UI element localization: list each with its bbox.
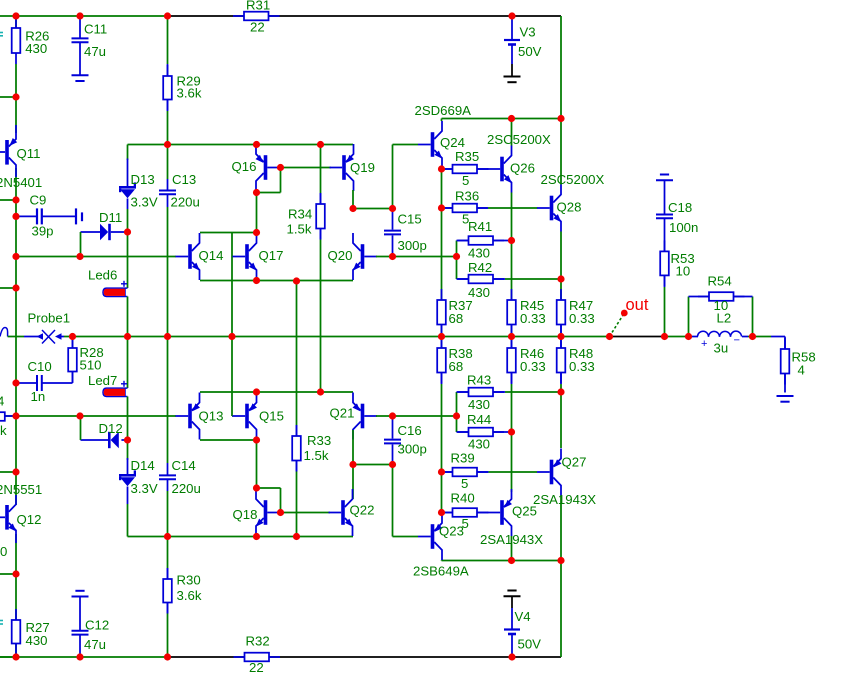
wire top rail left (green) [0,15,168,17]
svg-text:430: 430 [26,633,48,648]
junction at (167.5,536.5) [164,533,171,540]
ground below C11 [72,74,89,76]
capacitor C16 300p [392,416,394,439]
transistor Q26 2SC5200X NPN [488,168,490,170]
capacitor C15 300p [392,145,394,209]
svg-text:22: 22 [249,660,264,675]
wire y464 C16 bottom row [353,464,393,466]
svg-text:Q17: Q17 [259,248,284,263]
svg-text:Q11: Q11 [17,146,41,161]
svg-text:R39: R39 [451,451,475,466]
junction at (127.5,232) [124,228,131,235]
svg-text:300p: 300p [398,238,427,253]
partial resistor at left edge y416 [5,415,16,417]
svg-text:D13: D13 [131,172,155,187]
svg-text:Probe1: Probe1 [28,311,71,326]
wire Q23 collector down to row 560 [441,559,443,562]
capacitor C11 [79,16,81,38]
svg-text:47u: 47u [84,44,106,59]
svg-text:C9: C9 [30,193,47,208]
junction at (80,657) [76,653,83,660]
svg-text:2N5401: 2N5401 [0,175,42,190]
svg-text:3.6k: 3.6k [177,86,202,101]
resistor R43 430 [456,392,458,416]
junction at (512,16) [508,12,515,19]
svg-text:k: k [0,423,7,438]
junction at (256.5,536.5) [253,533,260,540]
resistor R39 5 [442,471,453,473]
svg-text:430: 430 [468,246,490,261]
junction at (80,16) [76,12,83,19]
junction at (353,208.5) [349,205,356,212]
svg-text:50V: 50V [518,637,542,652]
svg-text:D11: D11 [99,210,122,225]
junction at (256.5,440) [253,436,260,443]
svg-text:4: 4 [0,394,4,409]
partial label left edge bottom [0,620,3,622]
wire x561 Q27 emitter column [560,392,562,448]
transistor Q16 PNP mirrored diode-connected [264,155,268,180]
svg-text:R34: R34 [288,207,312,222]
svg-text:68: 68 [449,311,464,326]
junction at (80,256.5) [76,253,83,260]
junction at (16,657) [12,653,19,660]
svg-text:C10: C10 [28,359,52,374]
svg-text:R31: R31 [246,0,270,13]
junction at (16,97) [12,93,19,100]
wire Q26 collector to top row [511,119,513,146]
resistor R58 4 [784,348,786,350]
junction at (320.5,144.5) [317,141,324,148]
probe Probe1 [0,328,8,337]
resistor R54 10 [688,297,690,337]
svg-text:R44: R44 [467,412,491,427]
resistor R41 430 [456,241,458,257]
wire Q14 collector to Q17 collector [200,232,257,234]
svg-text:2N5551: 2N5551 [0,482,42,497]
transistor Q20 NPN mirrored [361,244,365,269]
svg-text:Q20: Q20 [328,248,353,263]
svg-text:1.5k: 1.5k [287,222,312,237]
svg-text:Q26: Q26 [510,161,535,176]
wire bottom rail black through R32 to V4 [168,656,562,658]
resistor R29 [167,16,169,64]
junction at (441.5,336.5) [438,333,445,340]
resistor R38 68 [441,337,443,349]
junction at (456.5,256.5) [453,253,460,260]
transistor Q19 PNP [281,167,332,169]
wire Q25 collector down [511,536,513,561]
svg-text:2SD669A: 2SD669A [415,103,472,118]
svg-text:C16: C16 [398,423,422,438]
capacitor C14 220u [167,337,169,464]
diode D11 [81,231,101,233]
svg-text:3.3V: 3.3V [131,195,158,210]
wire Q13 collector row y440 [200,439,257,441]
resistor R27 [15,609,17,620]
wire Q28 emitter down x561 [560,232,562,301]
svg-text:Q18: Q18 [233,507,258,522]
junction at (167.5,657) [164,653,171,660]
svg-text:Q28: Q28 [557,200,582,215]
wire Q16 collector to Q17 collector x256 [256,193,258,233]
wire y144 bias row [127,145,129,161]
wire x511 Q25 emitter column [511,432,513,492]
junction at (127.5,336.5) [124,333,131,340]
wire Q28 collector to top row [560,119,562,185]
svg-text:C15: C15 [398,212,422,227]
junction at (280.5,512.5) [277,509,284,516]
wire Q18 base-collector tie [257,487,281,489]
svg-text:V4: V4 [515,609,531,624]
svg-text:Q13: Q13 [199,409,224,424]
wire cascode vertical x232 [231,233,233,417]
wire Q18 base row to Q22 [281,512,331,514]
junction at (392.5,256.5) [389,253,396,260]
junction at (16,288) [12,284,19,291]
resistor R46 0.33 [511,337,513,349]
junction at (167.5,336.5) [164,333,171,340]
svg-text:1n: 1n [31,389,46,404]
junction at (256.5,488) [253,484,260,491]
wire Q19 collector to C15 top [352,190,354,209]
svg-text:0.33: 0.33 [520,359,546,374]
transistor Q11 PNP [0,151,5,153]
resistor R53 10 [664,240,666,251]
resistor R42 430 [456,257,458,280]
svg-text:510: 510 [80,358,102,373]
svg-text:0.33: 0.33 [520,311,546,326]
wire right power vertical to Q28 collector row [560,16,562,119]
voltage source V4 50V [507,590,516,592]
svg-text:3u: 3u [714,341,729,356]
junction at (16,200) [12,196,19,203]
resistor R47 0.33 [560,289,562,300]
svg-text:Q23: Q23 [439,524,464,539]
wire Q27 collector down [560,496,562,561]
junction at (664.5,336.5) [661,333,668,340]
diode D12 [81,439,109,441]
resistor R48 0.33 [560,337,562,349]
junction at (16,574) [12,570,19,577]
voltage source V3 50V [511,16,513,40]
junction at (456.5,416) [453,412,460,419]
wire right lower vertical [560,561,562,658]
svg-text:3.6k: 3.6k [177,588,202,603]
resistor R30 [167,537,169,569]
junction at (256.5,192.5) [253,189,260,196]
led Led7 [127,337,129,389]
zener D13 3.3V [127,159,129,187]
junction at (511.5,240.5) [508,237,515,244]
junction at (511.5,560.5) [508,557,515,564]
svg-text:C14: C14 [172,458,196,473]
svg-text:2SC5200X: 2SC5200X [487,132,551,147]
junction at (280.5,167.5) [277,164,284,171]
svg-text:R41: R41 [468,219,492,234]
svg-text:430: 430 [25,41,47,56]
junction at (688.5,336.5) [685,333,692,340]
svg-text:300p: 300p [398,442,427,457]
junction at (16,472) [12,468,19,475]
svg-text:Q22: Q22 [350,503,375,518]
wire Q15/Q13 collectors down to Q18 [256,440,258,488]
svg-text:5: 5 [462,173,469,188]
junction at (609.5,336.5) [606,333,613,340]
svg-text:R35: R35 [455,149,479,164]
wire Q23 emitter up to R40 junction [441,512,443,514]
svg-text:R42: R42 [468,260,492,275]
junction at (296.5,536.5) [293,533,300,540]
wire collector row y118 [442,118,562,120]
resistor R36 5 [442,207,453,209]
capacitor C13 220u [167,145,169,180]
svg-text:47u: 47u [84,637,106,652]
svg-text:R32: R32 [246,634,270,649]
junction at (256.5,280.5) [253,277,260,284]
svg-text:220u: 220u [172,481,201,496]
junction at (80,416) [76,412,83,419]
wire Q24 emitter column x441 upper [441,168,443,300]
svg-text:Q12: Q12 [17,512,42,527]
transistor Q14 NPN [188,244,192,269]
resistor R45 0.33 [511,289,513,300]
zener D14 3.3V [127,440,129,460]
resistor R33 1.5k [296,281,298,425]
junction at (232,336.5) [228,333,235,340]
svg-text:out: out [626,296,649,314]
svg-text:430: 430 [468,437,490,452]
transistor Q23 2SB649A PNP [393,536,419,538]
junction at (441.5,512.5) [438,509,445,516]
resistor R28 [72,337,74,349]
svg-text:C18: C18 [668,200,692,215]
wire Q14/Q17 emitter row y280 [200,280,353,282]
svg-text:C12: C12 [85,618,109,633]
junction at (256.5,144.5) [253,141,260,148]
junction at (441.5,169) [438,165,445,172]
wire left stubs to edge [0,96,16,98]
junction at (353,464.5) [349,461,356,468]
svg-text:2SA1943X: 2SA1943X [533,492,596,507]
svg-text:22: 22 [250,20,265,35]
svg-text:L2: L2 [717,311,732,326]
svg-text:1.5k: 1.5k [304,448,329,463]
svg-text:100n: 100n [669,220,698,235]
svg-text:V3: V3 [520,25,536,40]
wire Q20 base row to R41/R42 junction [376,256,457,258]
svg-text:C11: C11 [84,22,107,37]
resistor R34 1.5k [320,145,322,194]
junction at (16,416) [12,412,19,419]
svg-text:4: 4 [798,363,805,378]
wire Q21/Q22 collector junction x353 [352,430,354,465]
svg-text:Q15: Q15 [259,409,284,424]
resistor R26 [15,17,17,28]
junction at (16,16) [12,12,19,19]
svg-text:R33: R33 [307,433,331,448]
wire bottom rail green [0,656,168,658]
ground below R58 [777,395,794,397]
svg-text:Q25: Q25 [512,504,537,519]
resistor R32 22 [234,656,245,658]
inductor L2 3u [692,336,698,338]
svg-text:5: 5 [461,476,468,491]
junction at (512,657) [508,653,515,660]
transistor Q13 PNP [188,404,192,429]
resistor R44 430 [456,416,458,432]
wire lower collector row y560 [442,560,562,562]
junction at (511.5,432) [508,428,515,435]
svg-text:3.3V: 3.3V [131,481,158,496]
svg-text:R36: R36 [455,189,479,204]
wire left column x16 [15,16,17,28]
svg-text:D14: D14 [131,458,155,473]
svg-text:Q16: Q16 [232,159,257,174]
junction at (561,336.5) [557,333,564,340]
svg-text:Led6: Led6 [88,268,117,283]
resistor R31 22 [233,15,244,17]
junction at (256.5,392) [253,388,260,395]
junction at (392.5,464.5) [389,461,396,468]
transistor Q17 NPN [245,244,249,269]
svg-text:Q21: Q21 [330,406,355,421]
capacitor C10 [42,382,73,384]
svg-text:R30: R30 [177,573,201,588]
junction at (16,256.5) [12,253,19,260]
transistor Q15 PNP mirrored base from x232 [231,415,234,417]
transistor Q21 PNP mirrored [361,404,365,429]
junction at (441.5,208) [438,204,445,211]
junction at (511.5,336.5) [508,333,515,340]
capacitor C18 100n with ground above [660,174,669,176]
svg-text:Q27: Q27 [562,455,587,470]
junction at (561,118.5) [557,115,564,122]
svg-text:0.33: 0.33 [569,359,595,374]
svg-text:68: 68 [449,359,464,374]
transistor Q28 2SC5200X NPN [536,207,539,209]
resistor R37 68 [441,289,443,300]
node out label [610,314,625,337]
wire Q24 collector up to rail row [441,119,443,122]
junction at (561,279) [557,275,564,282]
svg-text:2SB649A: 2SB649A [413,564,469,579]
resistor R40 5 [442,512,453,514]
svg-text:Q24: Q24 [440,135,465,150]
junction at (16,383) [12,379,19,386]
transistor Q18 NPN mirrored diode-connected [264,500,268,525]
svg-text:430: 430 [468,397,490,412]
junction at (72.5,336.5) [69,333,76,340]
capacitor C12 with ground above [75,590,84,592]
junction at (296.5,281) [293,277,300,284]
led Led6 [127,232,129,288]
wire center out rail [64,336,610,338]
wire Q21 base row to R43/R44 junction [376,415,457,417]
junction at (561,392) [557,388,564,395]
resistor R35 5 [442,168,453,170]
junction at (392.5,416) [389,412,396,419]
svg-text:50V: 50V [518,44,542,59]
transistor Q22 NPN [341,500,345,525]
svg-text:39p: 39p [32,224,54,239]
wire y536 lower bias row [128,536,354,538]
svg-text:R54: R54 [708,274,732,289]
junction at (752.5,336.5) [749,333,756,340]
junction at (167.5,144.5) [164,141,171,148]
transistor Q27 2SA1943X PNP [550,460,554,485]
svg-text:0: 0 [0,544,7,559]
wire top rail black through R31 to V3 [168,15,562,17]
wire center rail right of R53 [665,336,693,338]
svg-text:Q14: Q14 [199,248,224,263]
svg-text:0.33: 0.33 [569,311,595,326]
svg-text:−: − [734,335,740,347]
svg-text:C13: C13 [172,172,196,187]
junction at (256.5,232.5) [253,229,260,236]
transistor Q24 2SD669A NPN [393,144,419,146]
svg-text:Led7: Led7 [88,373,117,388]
svg-text:220u: 220u [171,195,200,210]
junction at (16,216.4) [12,213,19,220]
partial label left edge top [0,32,3,34]
svg-text:10: 10 [676,264,691,279]
wire y256 to Q14 base [16,256,176,258]
capacitor C9 [16,215,37,217]
svg-text:+: + [701,338,707,350]
wire Q13/Q15 emitter row y392 [200,391,353,393]
junction at (167.5,16) [164,12,171,19]
svg-text:R43: R43 [467,373,491,388]
junction at (511.5,118.5) [508,115,515,122]
wire center rail black segment [610,336,665,338]
junction at (127.5,440) [124,436,131,443]
junction at (441.5,472) [438,468,445,475]
wire Q26 emitter down x511 to R41 junction [511,193,513,301]
svg-text:D12: D12 [99,421,123,436]
svg-text:R40: R40 [451,491,475,506]
svg-text:2SC5200X: 2SC5200X [541,172,605,187]
junction at (392.5,208.5) [389,205,396,212]
svg-text:Q19: Q19 [350,160,375,175]
wire Q16 base-collector tie [280,168,282,193]
transistor Q12 NPN [0,516,5,518]
junction at (320.5,392) [317,388,324,395]
transistor Q25 2SA1943X PNP [500,500,504,525]
junction at (561,560.5) [557,557,564,564]
